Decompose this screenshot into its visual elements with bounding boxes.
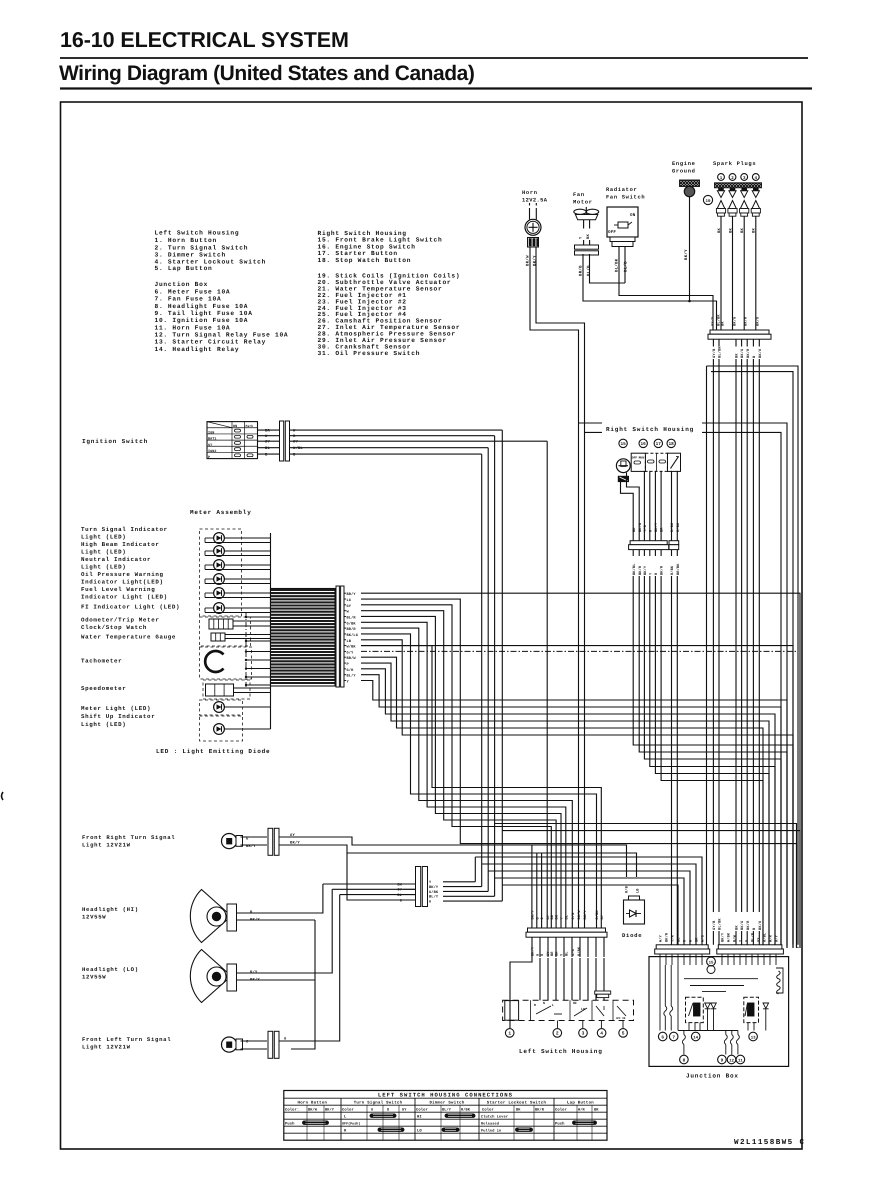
svg-text:IGN: IGN	[208, 431, 214, 436]
wire meter row15 route	[361, 681, 787, 949]
svg-text:16: 16	[641, 442, 647, 447]
svg-text:1. Horn Button: 1. Horn Button	[155, 237, 217, 244]
svg-text:13: 13	[751, 1035, 756, 1040]
dimmer switch glyph	[569, 1000, 571, 1020]
svg-text:12V55W: 12V55W	[82, 914, 106, 921]
wires headlight hi	[237, 884, 323, 913]
svg-text:9. Tail light Fuse 10A: 9. Tail light Fuse 10A	[155, 310, 253, 317]
wire fan switch right lead	[624, 247, 626, 284]
svg-text:OFF ON: OFF ON	[616, 1017, 626, 1020]
svg-text:Headlight (LO): Headlight (LO)	[82, 966, 139, 973]
wire meter row1 route	[361, 599, 797, 948]
svg-text:W/G: W/G	[701, 935, 706, 942]
svg-text:BK/G: BK/G	[732, 317, 737, 326]
svg-text:Wiring Diagram (United States: Wiring Diagram (United States and Canada…	[59, 62, 474, 85]
svg-text:BK/Y: BK/Y	[533, 255, 538, 266]
svg-text:Spark Plugs: Spark Plugs	[713, 161, 756, 167]
junction box outline	[649, 957, 789, 1067]
svg-text:R/BK: R/BK	[670, 522, 675, 532]
svg-text:Shift Up Indicator: Shift Up Indicator	[81, 713, 155, 720]
wire coil bus to junction connectors	[712, 931, 714, 945]
svg-text:Dimmer Switch: Dimmer Switch	[429, 1100, 464, 1105]
svg-text:Junction Box: Junction Box	[155, 281, 209, 288]
svg-text:Light (LED): Light (LED)	[81, 721, 126, 728]
svg-text:R/BL: R/BL	[763, 933, 768, 942]
svg-text:Odometer/Trip Meter: Odometer/Trip Meter	[81, 617, 159, 624]
svg-text:Oil Pressure Warning: Oil Pressure Warning	[81, 571, 164, 578]
svg-text:1: 1	[508, 1031, 511, 1037]
svg-text:3. Dimmer Switch: 3. Dimmer Switch	[155, 252, 226, 259]
svg-text:W/Y: W/Y	[659, 934, 664, 942]
wire fan switch left lead	[619, 247, 713, 331]
svg-text:12V2.5A: 12V2.5A	[522, 198, 548, 204]
svg-text:11. Horn Fuse 10A: 11. Horn Fuse 10A	[155, 324, 231, 331]
wire branch ignition W east	[495, 824, 797, 949]
svg-text:BL/Y: BL/Y	[442, 1107, 452, 1112]
svg-text:Left Switch Housing: Left Switch Housing	[155, 230, 240, 237]
svg-text:BK/Y: BK/Y	[654, 522, 659, 532]
svg-text:6: 6	[661, 1035, 664, 1040]
wire fan left lead	[583, 254, 717, 330]
svg-text:BL: BL	[397, 893, 402, 898]
junction box connector bar right	[718, 945, 782, 949]
svg-text:R/BK: R/BK	[670, 565, 675, 575]
svg-text:Color: Color	[416, 1107, 428, 1112]
circled 19 stick coils	[703, 195, 712, 204]
svg-text:BK/O: BK/O	[758, 348, 763, 358]
wire meter W/BK to right bus	[361, 646, 793, 948]
wires ignition switch to connector	[258, 429, 280, 431]
svg-text:BR: BR	[550, 951, 555, 956]
svg-text:HI: HI	[417, 1114, 422, 1119]
right switch housing connector bar	[630, 541, 667, 545]
svg-text:Clock/Stop Watch: Clock/Stop Watch	[81, 624, 147, 631]
wires lamp connector left steps	[323, 883, 415, 885]
svg-text:Radiator: Radiator	[606, 187, 637, 193]
svg-text:18: 18	[669, 442, 675, 447]
svg-text:BK/W: BK/W	[308, 1107, 318, 1112]
svg-text:Light 12V21W: Light 12V21W	[82, 842, 131, 849]
fan motor connector	[575, 245, 599, 249]
svg-text:LED : Light Emitting Diode: LED : Light Emitting Diode	[156, 748, 270, 755]
svg-text:BL/Y: BL/Y	[347, 674, 357, 679]
table left switch housing connections frame	[284, 1091, 607, 1141]
svg-text:BK/Y: BK/Y	[325, 1107, 335, 1112]
svg-text:BK/O: BK/O	[758, 920, 763, 930]
wire meter row5 route	[361, 622, 566, 921]
svg-text:RUN: RUN	[639, 457, 645, 460]
svg-text:HI: HI	[573, 1001, 577, 1005]
wire spark plug 4	[755, 216, 757, 330]
svg-text:12V55W: 12V55W	[82, 974, 106, 981]
svg-text:BK/Y: BK/Y	[583, 910, 588, 920]
svg-text:GY/B: GY/B	[712, 348, 717, 358]
svg-text:GY: GY	[600, 914, 605, 919]
right switch housing numbers	[619, 439, 627, 447]
svg-text:BL/R: BL/R	[751, 932, 756, 942]
svg-text:BL/R: BL/R	[347, 615, 357, 620]
svg-text:Left Switch Housing: Left Switch Housing	[519, 1048, 603, 1055]
svg-text:Light (LED): Light (LED)	[81, 549, 126, 556]
ignition switch table	[207, 422, 258, 459]
svg-text:BL/BK: BL/BK	[718, 918, 723, 930]
svg-text:G: G	[745, 940, 750, 942]
wire ignition W run	[494, 436, 496, 897]
svg-text:BR/W: BR/W	[347, 656, 357, 661]
svg-text:BK/Y: BK/Y	[531, 910, 536, 920]
svg-text:13. Starter Circuit Relay: 13. Starter Circuit Relay	[155, 339, 267, 346]
svg-text:BK/R: BK/R	[746, 348, 751, 358]
svg-text:2: 2	[556, 1031, 559, 1037]
svg-text:Fuel Level Warning: Fuel Level Warning	[81, 586, 155, 593]
svg-text:4: 4	[600, 1031, 603, 1037]
svg-text:Motor: Motor	[573, 200, 593, 206]
svg-text:BL: BL	[265, 446, 270, 451]
junction box connector bar left	[656, 945, 708, 949]
wire horn branch right 1	[579, 422, 603, 424]
svg-text:Light 12V21W: Light 12V21W	[82, 1044, 131, 1051]
svg-text:R/BK: R/BK	[595, 910, 600, 920]
junction box circled numbers bottom row2	[680, 1055, 689, 1064]
svg-text:Right Switch Housing: Right Switch Housing	[606, 426, 694, 433]
svg-text:N: N	[543, 1001, 545, 1005]
junction box circled numbers bottom row1	[658, 1032, 667, 1041]
svg-text:BK: BK	[555, 914, 560, 919]
wire horn left lead	[530, 247, 579, 921]
svg-text:Front Left Turn Signal: Front Left Turn Signal	[82, 1036, 171, 1043]
meter connector bars	[336, 586, 339, 687]
svg-text:Horn Button: Horn Button	[298, 1100, 328, 1105]
svg-text:Park: Park	[246, 424, 254, 428]
wire meter row4 route	[361, 616, 561, 921]
svg-text:9: 9	[721, 1058, 724, 1063]
svg-text:BL/BK: BL/BK	[718, 346, 723, 358]
wires right switch housing down	[643, 471, 645, 535]
junction box relay 1	[686, 997, 704, 1022]
front left turn signal connector	[268, 1031, 273, 1058]
svg-text:GY/Y: GY/Y	[710, 316, 715, 326]
svg-text:BR: BR	[594, 1107, 599, 1112]
svg-text:G/R: G/R	[347, 668, 355, 673]
svg-text:G/Y: G/Y	[347, 650, 355, 655]
wires left switch housing upper stubs	[531, 921, 533, 928]
fan motor	[574, 209, 586, 214]
front right turn signal connector	[268, 828, 273, 855]
svg-text:BK/O: BK/O	[755, 316, 760, 326]
left switch housing switch box	[503, 1000, 634, 1020]
svg-text:GY/B: GY/B	[712, 920, 717, 930]
wires right switch housing bus down	[632, 550, 634, 556]
svg-text:BK/R: BK/R	[746, 920, 751, 930]
svg-text:R/B: R/B	[625, 885, 630, 893]
svg-text:Released: Released	[481, 1121, 499, 1126]
horn	[529, 208, 531, 220]
svg-text:LEFT SWITCH HOUSING CONNECTION: LEFT SWITCH HOUSING CONNECTIONS	[378, 1092, 513, 1099]
horn button box	[505, 1001, 519, 1021]
wire ignition BL run	[487, 448, 489, 892]
svg-text:BK: BK	[720, 321, 725, 326]
meter harness vertical bus	[270, 533, 272, 729]
svg-text:Lap Button: Lap Button	[567, 1100, 594, 1105]
wire meter row7 route	[361, 634, 597, 921]
svg-text:BK/W: BK/W	[577, 910, 582, 920]
heading rule 2	[60, 87, 812, 89]
svg-text:BL/B: BL/B	[624, 261, 629, 272]
svg-text:14: 14	[693, 1035, 698, 1040]
junction box internal wires top	[659, 954, 661, 965]
meter LED wires	[224, 537, 270, 539]
wire spark plug 1	[720, 216, 722, 330]
svg-text:GY: GY	[265, 440, 270, 445]
meter gauge wires	[233, 620, 271, 622]
svg-text:Headlight (HI): Headlight (HI)	[82, 906, 139, 913]
svg-text:OFF: OFF	[632, 457, 638, 460]
left switch housing numbers	[505, 1029, 514, 1038]
svg-text:Color: Color	[482, 1107, 494, 1112]
svg-text:Y/R: Y/R	[671, 934, 676, 942]
table color row	[306, 1105, 308, 1140]
wire turn signal feed to left switch housing 2	[536, 853, 538, 921]
svg-text:LO: LO	[417, 1128, 422, 1133]
wire turn signal feed to left switch housing 3	[541, 853, 543, 921]
junction box inner bus line	[678, 1030, 738, 1032]
svg-text:GY: GY	[397, 888, 402, 893]
svg-text:L: L	[552, 1003, 554, 1007]
spark plug 2	[730, 188, 735, 191]
svg-text:Clutch Lever: Clutch Lever	[481, 1114, 508, 1119]
wires headlight lo	[237, 889, 333, 973]
water temperature gauge display	[211, 633, 225, 641]
svg-text:Front Right Turn Signal: Front Right Turn Signal	[82, 834, 175, 841]
svg-text:BAT1: BAT1	[208, 437, 217, 442]
svg-text:8: 8	[683, 1058, 686, 1063]
svg-text:G/BK: G/BK	[429, 890, 439, 895]
meter harness block	[271, 589, 336, 687]
svg-text:GY: GY	[402, 1107, 407, 1112]
svg-text:G/BK: G/BK	[347, 621, 357, 626]
meter light LED	[214, 702, 225, 713]
heading rule 1	[60, 57, 808, 59]
wire lamp ground bus	[291, 920, 315, 1049]
tachometer dial	[205, 651, 223, 672]
svg-text:BK/R: BK/R	[638, 565, 643, 575]
svg-text:BK: BK	[397, 882, 402, 887]
svg-text:W/R: W/R	[769, 934, 774, 942]
svg-text:BK/G: BK/G	[740, 349, 745, 358]
wire meter row9 route	[361, 646, 601, 921]
wire meter BR/Y to right bus	[361, 593, 800, 948]
wire ignition B run	[481, 454, 483, 886]
svg-text:Junction Box: Junction Box	[686, 1073, 739, 1080]
svg-text:Engine: Engine	[672, 161, 696, 167]
svg-text:Starter Lockout Switch: Starter Lockout Switch	[487, 1100, 547, 1105]
meter assembly dashed boxes	[200, 529, 242, 616]
svg-text:Turn Signal Indicator: Turn Signal Indicator	[81, 526, 168, 533]
svg-text:P: P	[347, 662, 349, 667]
wire spark plug 3	[743, 216, 745, 330]
starter lockout switch glyph	[591, 1000, 593, 1020]
table column lines	[340, 1098, 342, 1140]
spark plug 1	[719, 188, 724, 191]
headlight hi reflector	[190, 890, 229, 943]
diode	[624, 900, 645, 924]
svg-text:Diode: Diode	[622, 932, 642, 939]
svg-text:GY: GY	[347, 604, 352, 609]
svg-text:BR/Y: BR/Y	[347, 592, 357, 597]
svg-text:BK/Y: BK/Y	[429, 885, 439, 890]
svg-text:GY: GY	[757, 937, 762, 942]
svg-text:Y/G: Y/G	[643, 525, 648, 532]
wire meter row2 route	[361, 605, 551, 921]
left switch housing small connector	[595, 991, 611, 994]
svg-text:High Beam Indicator: High Beam Indicator	[81, 541, 159, 548]
svg-text:R/Y: R/Y	[775, 934, 780, 942]
shift up LED	[214, 724, 225, 735]
wires ignition switch staircase	[290, 429, 503, 431]
svg-text:R/BK: R/BK	[676, 522, 681, 532]
wire ignition GY run	[546, 441, 548, 921]
svg-text:LG: LG	[347, 598, 352, 603]
svg-text:BR/R: BR/R	[347, 627, 357, 632]
svg-text:BL: BL	[677, 937, 682, 942]
svg-text:15: 15	[709, 960, 714, 965]
svg-text:5: 5	[622, 1031, 625, 1037]
odometer display	[209, 619, 233, 629]
svg-text:3: 3	[582, 1031, 585, 1037]
svg-text:W/BK: W/BK	[727, 932, 732, 942]
svg-text:W/BK: W/BK	[347, 645, 357, 650]
ignition switch connector	[280, 421, 284, 461]
svg-text:OFF: OFF	[608, 230, 616, 235]
wire long horizontal mid right 2	[711, 372, 793, 944]
svg-text:14. Headlight Relay: 14. Headlight Relay	[155, 346, 240, 353]
svg-text:BR: BR	[550, 914, 555, 919]
svg-text:BL/Y: BL/Y	[429, 895, 439, 900]
svg-text:Light (LED): Light (LED)	[81, 534, 126, 541]
starter button box	[645, 453, 667, 471]
svg-text:16-10 ELECTRICAL SYSTEM: 16-10 ELECTRICAL SYSTEM	[60, 28, 349, 52]
wire meter G/Y dash-dot to right bus	[361, 651, 798, 948]
svg-text:W/R: W/R	[578, 1107, 586, 1112]
svg-text:31. Oil Pressure Switch: 31. Oil Pressure Switch	[318, 350, 421, 357]
svg-text:18. Stop Watch Button: 18. Stop Watch Button	[318, 257, 412, 264]
wire engine ground	[689, 197, 691, 301]
svg-text:W2L1158BW5 C: W2L1158BW5 C	[734, 1138, 805, 1147]
spark plug numbers	[718, 174, 725, 181]
svg-text:BK: BK	[516, 1107, 521, 1112]
svg-text:R: R	[534, 1003, 536, 1007]
engine stop switch box	[631, 453, 645, 471]
wire spark plug 2	[732, 216, 734, 330]
svg-text:7: 7	[672, 1035, 675, 1040]
wire horn right lead	[536, 247, 585, 921]
svg-text:G: G	[371, 1107, 373, 1112]
wire meter row3 route	[361, 611, 556, 921]
svg-text:BK/Y: BK/Y	[684, 249, 689, 260]
svg-text:Horn: Horn	[522, 190, 538, 196]
svg-text:Fan Switch: Fan Switch	[606, 195, 645, 201]
svg-text:17: 17	[656, 442, 662, 447]
svg-text:Color: Color	[555, 1107, 567, 1112]
svg-text:BK/R: BK/R	[743, 316, 748, 326]
svg-text:BK: BK	[735, 925, 740, 930]
junction box internal verticals	[688, 1023, 690, 1031]
wires right switch housing short to bar	[632, 535, 634, 541]
svg-text:P: P	[208, 455, 210, 460]
meter LED indicators	[214, 533, 225, 544]
spark plug bar	[715, 183, 762, 188]
svg-text:BK/R: BK/R	[665, 932, 670, 942]
svg-text:BK: BK	[586, 234, 591, 239]
junction box fuses left	[664, 965, 666, 1006]
svg-text:Fan: Fan	[573, 192, 585, 198]
wires left switch housing lower	[510, 937, 532, 1000]
svg-text:OFF(Push): OFF(Push)	[342, 1121, 360, 1126]
svg-text:Ground: Ground	[672, 169, 696, 175]
wire coil bus verticals	[712, 339, 714, 346]
svg-text:Neutral Indicator: Neutral Indicator	[81, 556, 151, 563]
svg-text:G: G	[535, 917, 540, 919]
svg-text:BK/G: BK/G	[740, 921, 745, 930]
svg-text:Pulled in: Pulled in	[481, 1128, 501, 1133]
wire meter row13 route	[361, 669, 775, 948]
svg-text:8. Headlight Fuse 10A: 8. Headlight Fuse 10A	[155, 303, 249, 310]
turn signal switch glyph	[530, 1000, 532, 1020]
svg-text:BK/Y: BK/Y	[643, 565, 648, 575]
svg-text:Tachometer: Tachometer	[81, 658, 122, 665]
junction box diode pair	[705, 1003, 711, 1008]
wire meter row11 route	[361, 657, 763, 948]
wire long horizontal mid right 1	[707, 366, 799, 944]
meter light wires	[224, 706, 270, 708]
svg-text:Push: Push	[285, 1121, 295, 1126]
headlight lo reflector	[190, 950, 229, 1003]
svg-text:Indicator Light (LED): Indicator Light (LED)	[81, 594, 168, 601]
page edge mark	[2, 792, 4, 800]
svg-text:Indicator Light(LED): Indicator Light(LED)	[81, 579, 164, 586]
svg-text:BK/R: BK/R	[660, 565, 665, 575]
spark plug 3	[742, 188, 747, 191]
spark plug 4	[753, 188, 758, 191]
svg-text:LB: LB	[347, 639, 352, 644]
svg-text:2. Turn Signal Switch: 2. Turn Signal Switch	[155, 244, 249, 251]
svg-text:12: 12	[729, 1058, 734, 1063]
svg-text:5. Lap Button: 5. Lap Button	[155, 265, 213, 272]
svg-text:6. Meter Fuse 10A: 6. Meter Fuse 10A	[155, 289, 231, 296]
svg-text:11: 11	[738, 1058, 743, 1063]
svg-text:BK/BL: BK/BL	[632, 563, 637, 575]
svg-text:Color: Color	[342, 1107, 354, 1112]
svg-text:15: 15	[620, 442, 626, 447]
svg-text:BK/G: BK/G	[638, 523, 643, 532]
wire meter row14 route	[361, 675, 781, 948]
svg-text:BR/BK: BR/BK	[676, 563, 681, 575]
svg-text:BL: BL	[564, 915, 569, 920]
svg-text:Turn Signal Switch: Turn Signal Switch	[354, 1100, 403, 1105]
svg-text:G: G	[429, 900, 431, 905]
svg-text:Speedometer: Speedometer	[81, 685, 126, 692]
junction box internal horizontals	[684, 978, 758, 980]
speedometer display	[206, 684, 234, 696]
circled numbers junction top	[707, 957, 716, 966]
svg-text:Water Temperature Gauge: Water Temperature Gauge	[81, 633, 176, 640]
junction box fuses center	[683, 1031, 685, 1035]
front left turn signal bulb	[222, 1037, 237, 1052]
wire long vertical mid right	[706, 366, 708, 945]
left switch housing connector bar	[528, 928, 606, 932]
svg-text:Meter Assembly: Meter Assembly	[190, 509, 252, 516]
junction box relay 2	[744, 997, 759, 1022]
